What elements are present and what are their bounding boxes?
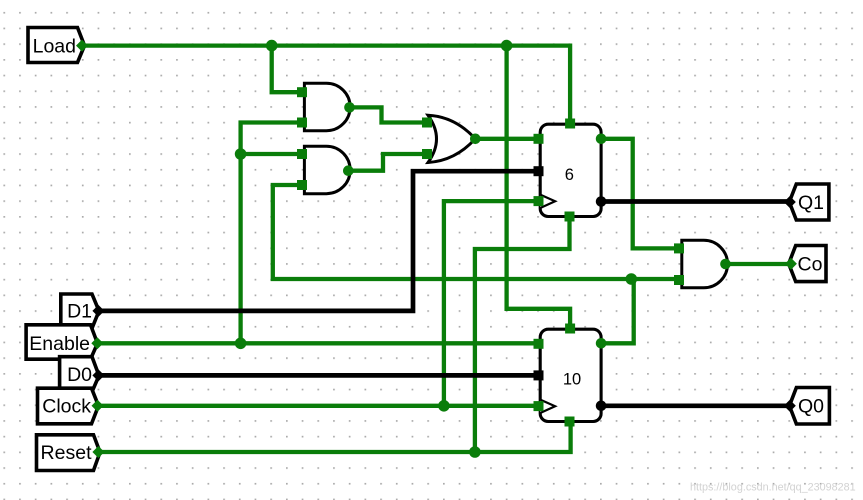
svg-text:Co: Co — [798, 254, 823, 276]
port square U2 D (left mid, black) — [534, 370, 544, 380]
port square U1 in (left top) — [534, 134, 544, 144]
port dot U1 Q (right mid, black) — [596, 196, 607, 207]
port dot AND3 output — [720, 259, 731, 270]
wire OR output to FF1 (green) — [475, 137, 540, 141]
port square AND3 input A — [674, 243, 684, 253]
port square U1 D (left mid, black) — [534, 166, 544, 176]
junction on Clock wire at x=444 — [438, 400, 450, 412]
wire net Load (green) — [82, 46, 570, 328]
port square AND3 input B — [674, 275, 684, 285]
port dot OR output — [470, 134, 481, 145]
svg-text:Q1: Q1 — [798, 192, 824, 214]
input pin Enable — [26, 325, 97, 359]
wire AND2 output to OR input (green) — [348, 154, 430, 171]
wire net Q0 (black) — [601, 403, 790, 408]
wire net Enable (green) — [97, 123, 540, 344]
pin tip diamond D1 (black) — [92, 305, 104, 317]
or-gate U3 — [428, 115, 475, 162]
svg-text:Reset: Reset — [41, 442, 93, 464]
flip-flop U1 box (label 6) — [540, 124, 601, 216]
svg-text:10: 10 — [563, 371, 581, 389]
output pin Co — [789, 246, 826, 282]
port square U2 load (top) — [565, 324, 575, 334]
port square AND2 input A — [297, 149, 307, 159]
svg-text:D0: D0 — [67, 364, 92, 386]
port square U2 in (left top) — [534, 339, 544, 349]
junction on Load wire at x=272 — [266, 40, 278, 52]
input pin Reset — [37, 435, 101, 471]
svg-text:6: 6 — [565, 166, 574, 184]
port square AND1 input A — [297, 87, 307, 97]
wire FF1 Q to AND3 top input (green) — [601, 139, 679, 249]
and-gate AND3 (carry out) — [682, 240, 728, 287]
input pin Clock — [38, 388, 99, 424]
pin tip diamond Load (green) — [76, 40, 88, 52]
pin tip diamond Enable (green) — [91, 337, 103, 349]
wire net Clock (green) — [98, 201, 541, 406]
port square OR input B — [422, 149, 432, 159]
pin tip diamond Q0 (black) — [784, 400, 796, 412]
port square AND2 input B — [297, 180, 307, 190]
junction on Enable wire at x=241 — [235, 338, 247, 350]
and-gate AND1 — [304, 83, 350, 131]
clock triangle of U2 — [540, 400, 555, 413]
output pin Q0 — [789, 388, 829, 425]
port square U1 clock — [534, 196, 544, 206]
wire net Reset (green) — [98, 218, 570, 452]
port square AND1 input B — [297, 118, 307, 128]
port square U1 load (top) — [565, 119, 575, 129]
pin tip diamond Co (green) — [785, 258, 797, 270]
pin tip diamond Q1 (black) — [784, 196, 796, 208]
wire AND1 output to OR input (green) — [350, 107, 431, 122]
wire FF2 Q to AND2/AND3 inputs (green) — [273, 185, 679, 343]
junction on Reset wire at x=475 — [469, 446, 481, 458]
junction on Enable riser at AND2 branch — [235, 148, 247, 160]
junction on Load wire at x=507 — [501, 40, 513, 52]
wire net Q1 (black) — [601, 199, 790, 204]
input pin Load — [28, 28, 85, 63]
wire net D1 (black) — [98, 171, 540, 311]
pin tip diamond Clock (green) — [92, 400, 104, 412]
port square U1 reset (bottom) — [565, 212, 575, 222]
port dot U2 Q (right mid, black) — [596, 401, 607, 412]
port square U2 reset (bottom) — [565, 417, 575, 427]
clock triangle of U1 — [540, 195, 555, 208]
port dot AND1 output — [344, 102, 355, 113]
wire net D0 (black) — [98, 373, 540, 378]
svg-text:Clock: Clock — [42, 396, 91, 418]
pin tip diamond D0 (black) — [92, 369, 104, 381]
svg-text:Enable: Enable — [29, 333, 90, 355]
input pin D0 — [60, 357, 99, 392]
port square U2 clock — [534, 401, 544, 411]
junction on FF2 Q net at x=631 — [626, 273, 638, 285]
wire AND3 output to Co (green) — [726, 262, 791, 266]
port dot U1 out (right top) — [596, 134, 607, 145]
svg-text:Q0: Q0 — [798, 396, 824, 418]
and-gate AND2 — [304, 146, 350, 194]
pin tip diamond Reset (green) — [92, 446, 104, 458]
port square OR input A — [422, 118, 432, 128]
output pin Q1 — [789, 184, 829, 220]
flip-flop U2 box (label 10) — [540, 329, 601, 421]
svg-text:Load: Load — [33, 35, 76, 57]
svg-text:https://blog.csdn.net/qq_23098: https://blog.csdn.net/qq_23098281 — [690, 482, 856, 494]
port dot U2 out (right top) — [596, 338, 607, 349]
port dot AND2 output — [343, 165, 354, 176]
svg-text:D1: D1 — [67, 301, 92, 323]
input pin D1 — [61, 294, 99, 328]
watermark text — [690, 482, 856, 494]
